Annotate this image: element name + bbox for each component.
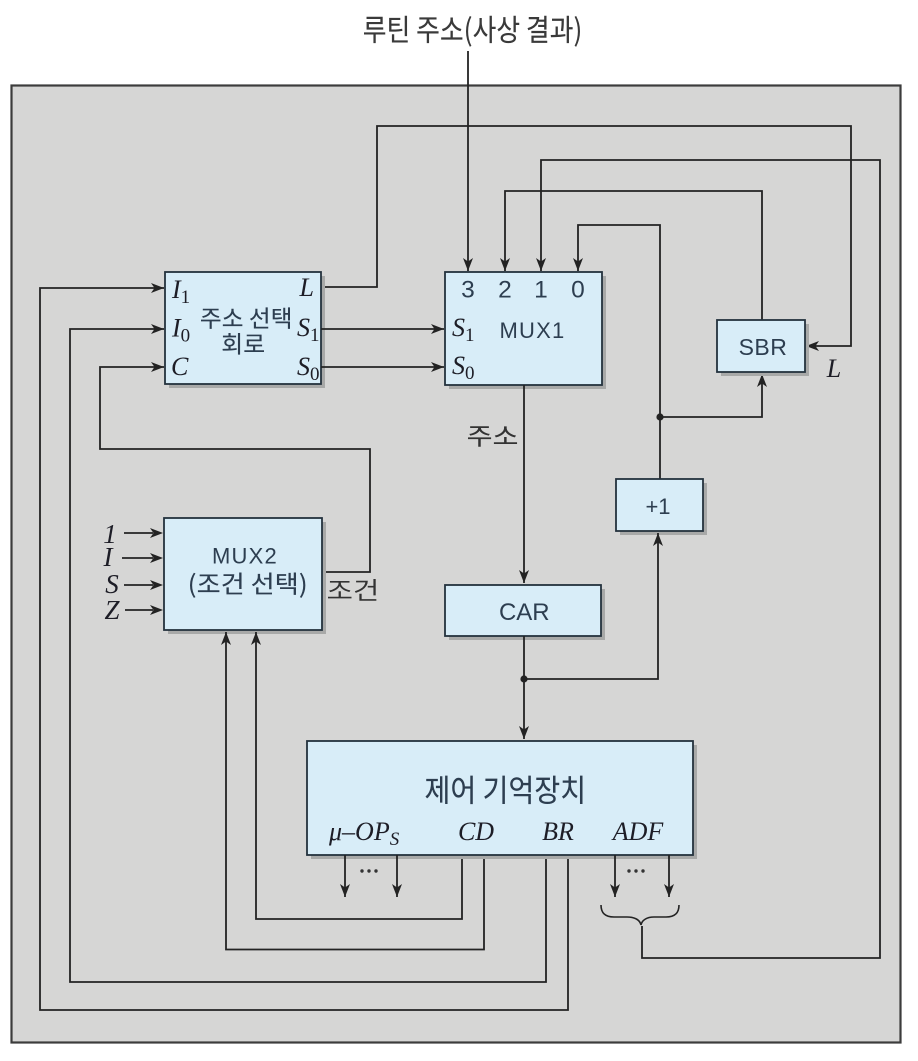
wire: ADF field feedback to MUX1 input 1 — [541, 160, 880, 958]
block: address select logic — [169, 276, 325, 388]
wire: mapping address into MUX1 input 3 — [467, 51, 469, 271]
wire: BR bit to I1 input — [40, 288, 568, 1010]
wire: micro-op output 1 — [344, 855, 346, 897]
wire: S0 select to MUX1 — [321, 366, 444, 368]
block: SBR — [721, 324, 809, 376]
block: incrementer +1 — [620, 483, 707, 535]
wire: incrementer output to MUX1 input 0 — [578, 225, 660, 479]
wire: CD bit 2 to MUX2 select — [226, 632, 484, 950]
svg-text:SBR: SBR — [739, 334, 788, 360]
wire: S1 select to MUX1 — [321, 328, 444, 330]
svg-text:C: C — [171, 352, 189, 381]
block: CAR — [449, 589, 605, 640]
wire: CAR output to incrementer input — [524, 533, 658, 679]
wire: BR bit to I0 input — [70, 329, 546, 982]
svg-text:0: 0 — [571, 277, 585, 304]
svg-text:MUX2: MUX2 — [212, 544, 278, 569]
svg-text:CAR: CAR — [499, 599, 550, 626]
wire: MUX1 address output to CAR — [523, 385, 525, 583]
svg-text:MUX1: MUX1 — [500, 318, 566, 343]
svg-text:BR: BR — [542, 817, 574, 846]
wire: ADF output bit 2 — [668, 855, 670, 897]
block: control memory — [311, 745, 697, 859]
svg-text:1: 1 — [534, 277, 548, 304]
svg-text:CD: CD — [458, 817, 494, 846]
label: juso (address) — [468, 426, 517, 446]
label: jeeo gieokjangchi — [425, 776, 582, 804]
svg-text:+1: +1 — [645, 494, 670, 519]
svg-text:3: 3 — [461, 277, 475, 304]
wire: SBR output to MUX1 input 2 — [505, 191, 762, 320]
wire: incremented address into SBR bottom input — [660, 374, 762, 417]
svg-text:2: 2 — [498, 277, 512, 304]
svg-text:L: L — [299, 273, 314, 302]
label: hoero — [223, 333, 264, 355]
label: jogeon (condition) — [328, 579, 376, 601]
block: MUX2 condition select — [168, 522, 326, 634]
brace gathering ADF bits — [601, 905, 679, 925]
svg-text:ADF: ADF — [611, 817, 665, 846]
wire: condition to C input — [100, 367, 370, 572]
junction: CAR output node — [520, 675, 527, 682]
wire: CD bit 1 to MUX2 select — [256, 632, 462, 919]
svg-text:Z: Z — [104, 595, 120, 625]
wire: L from address select logic to SBR load input — [321, 126, 851, 346]
block: MUX1 — [449, 276, 606, 389]
wire: micro-op output 2 — [396, 855, 398, 897]
label: routine address (mapping result) — [364, 16, 580, 47]
junction: incrementer output node — [656, 413, 663, 420]
dots between micro-op outputs — [360, 869, 363, 872]
wire: CAR output to control memory — [523, 636, 525, 739]
svg-text:L: L — [826, 354, 841, 383]
label: juso seontaek — [201, 307, 290, 329]
svg-text:μ–OPS: μ–OPS — [328, 817, 400, 850]
label: jogeon seontaek — [190, 573, 305, 598]
wire: ADF output bit 1 — [614, 855, 616, 897]
dots between ADF outputs — [627, 869, 630, 872]
